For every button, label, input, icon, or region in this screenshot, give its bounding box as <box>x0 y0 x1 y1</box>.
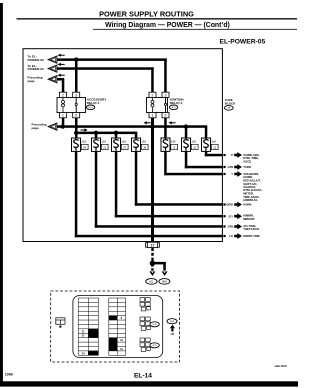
wire OR/B to right edge <box>135 203 223 206</box>
svg-text:MIRROR: MIRROR <box>243 217 254 221</box>
wire from fuse at x=136 down <box>135 151 138 205</box>
svg-text:Y: Y <box>231 172 233 176</box>
pin 2 ignition relay (top left) <box>149 92 156 97</box>
svg-text:10A: 10A <box>191 140 196 144</box>
wire from fuse at x=96 down <box>95 151 98 227</box>
wire color label LG and exit arrow <box>223 233 242 239</box>
svg-text:5: 5 <box>75 114 77 118</box>
node battery bus / fuse 10 tap <box>184 124 188 128</box>
svg-text:27: 27 <box>123 145 126 149</box>
wire from fuse at x=116 down <box>115 151 118 217</box>
fuse block face left fuse column grid <box>78 298 98 355</box>
svg-text:5: 5 <box>165 114 167 118</box>
bottom black bar <box>0 381 298 386</box>
wire accessory bus drop to fuse 27 <box>115 133 118 138</box>
wire main battery feed vertical (ignition coil to connector 17) <box>151 118 154 242</box>
wire from fuse at x=186 down <box>185 151 188 168</box>
svg-text:EL-14: EL-14 <box>134 372 152 379</box>
flow arrow on accessory bus <box>81 128 88 131</box>
node battery bus / ignition coil feed <box>150 124 154 128</box>
subtitle rule <box>93 28 297 31</box>
node accessory bus / fuse 21 tap <box>94 131 98 135</box>
wire battery bus corner drop to fuse 12 <box>205 127 208 138</box>
wire accessory bus drop to fuse 21 <box>95 133 98 138</box>
harness arrow to M1 <box>149 271 155 276</box>
destination text for G/Y <box>243 214 254 221</box>
wire dashed drop to M1 arrow <box>151 264 153 271</box>
svg-text:P: P <box>231 153 233 157</box>
svg-text:TURN: TURN <box>243 165 251 169</box>
node junction wire A / accessory relay contact feed <box>74 57 78 61</box>
svg-text:page: page <box>32 126 40 130</box>
wire accessory relay coil return drop <box>62 118 65 128</box>
wire color label P and exit arrow <box>223 152 242 158</box>
svg-text:2: 2 <box>62 93 64 97</box>
svg-text:RELAY-1: RELAY-1 <box>170 101 183 105</box>
page left edge bar <box>0 3 3 386</box>
face view ref E24 <box>150 322 159 327</box>
wire G/W to right edge <box>95 225 223 228</box>
accessory relay contact symbol <box>75 98 77 104</box>
svg-text:G/W: G/W <box>228 165 234 169</box>
svg-text:10: 10 <box>193 145 196 149</box>
svg-text:15A: 15A <box>141 140 146 144</box>
svg-text:1: 1 <box>62 114 64 118</box>
connector ref E24 (accessory relay) <box>86 105 94 110</box>
flow arrow on wire A <box>58 54 65 57</box>
face view ref M33 <box>167 319 177 324</box>
destination text for Y <box>243 172 263 202</box>
connector ref M66 <box>159 279 170 285</box>
svg-text:M66: M66 <box>162 280 167 283</box>
wire A horizontal (triangle A to ignition relay pin 3) <box>57 58 167 61</box>
accessory relay coil symbol <box>62 100 65 103</box>
svg-text:OR/B: OR/B <box>226 203 233 207</box>
svg-text:M1: M1 <box>150 279 154 283</box>
wire accessory bus to fuses <box>76 132 137 135</box>
wire color label OR/B and exit arrow <box>223 202 242 208</box>
page connector triangle B (to EL-POWER-02) <box>48 65 57 72</box>
wire G/Y to right edge <box>115 215 223 218</box>
svg-text:EL-POWER-05: EL-POWER-05 <box>220 39 266 46</box>
page connector triangle D (preceding page lower) <box>48 123 57 130</box>
flow arrow on battery bus (left) <box>144 121 151 124</box>
svg-text:1006: 1006 <box>5 373 13 377</box>
svg-text:BLOCK: BLOCK <box>225 102 236 106</box>
fuse F27 10A <box>112 138 129 151</box>
wire C drop to accessory relay coil pin <box>62 79 65 92</box>
wire from fuse at x=206 down <box>205 151 208 156</box>
ignition relay contact symbol <box>165 98 167 104</box>
wire color label G/Y and exit arrow <box>223 213 242 219</box>
relay IGNITION RELAY-1 body <box>147 98 168 113</box>
svg-text:UP: UP <box>171 332 175 336</box>
page connector triangle C (preceding page) <box>48 76 57 83</box>
wire B horizontal (triangle B to ignition relay coil) <box>57 67 154 70</box>
ignition relay socket (face view) <box>140 338 150 351</box>
wire LG to right edge <box>75 235 223 238</box>
connector 17 pass-through at fuse block edge <box>146 242 160 248</box>
svg-text:G/W: G/W <box>228 225 234 229</box>
svg-text:18: 18 <box>143 145 146 149</box>
svg-text:THEFT,FICD: THEFT,FICD <box>243 227 259 231</box>
svg-text:POWER SUPPLY ROUTING: POWER SUPPLY ROUTING <box>99 10 194 19</box>
flow arrow on battery bus (right) <box>169 121 176 124</box>
highlighted fuse cells 8 10 12 <box>109 316 117 320</box>
svg-text:J/B: J/B <box>227 108 231 110</box>
destination text for P <box>243 153 260 164</box>
page connector triangle A (to EL-POWER-03) <box>48 56 57 63</box>
destination text for LG <box>243 234 260 238</box>
svg-text:ASCD: ASCD <box>243 160 251 164</box>
destination text for G/W <box>243 224 259 231</box>
fuse F8 10A <box>161 138 178 151</box>
svg-text:21: 21 <box>103 145 106 149</box>
connector ref J/B (fuse block) <box>224 106 233 111</box>
svg-text:H/MIRR,ILL: H/MIRR,ILL <box>243 198 258 202</box>
pin 1 ignition relay (bottom left) <box>149 113 156 118</box>
svg-text:10A: 10A <box>101 140 106 144</box>
pin 3 ignition relay (top right) <box>162 92 169 97</box>
wire A drop to ignition relay contact pin <box>164 58 167 92</box>
wire drop to M66 arrow <box>163 263 166 270</box>
fuse block face outline <box>73 296 163 358</box>
wire accessory bus corner drop to fuse 18 <box>135 133 138 138</box>
svg-text:RELAY-1: RELAY-1 <box>87 101 100 105</box>
destination text for G/W <box>243 165 251 169</box>
fuse F24 20A <box>72 138 89 151</box>
title rule <box>17 18 298 19</box>
harness arrow to M66 <box>162 271 168 276</box>
svg-text:10A: 10A <box>211 140 216 144</box>
node battery bus / accessory coil <box>61 124 65 128</box>
svg-text:10A: 10A <box>121 140 126 144</box>
relay socket top (face view) <box>140 298 150 311</box>
wire P to right edge <box>205 154 223 157</box>
face view ref E25 <box>150 343 159 348</box>
ignition relay coil symbol <box>151 100 154 103</box>
svg-text:Wiring Diagram — POWER — (Cont: Wiring Diagram — POWER — (Cont’d) <box>105 22 230 29</box>
svg-text:2: 2 <box>152 93 154 97</box>
pin 3 accessory relay (top right) <box>73 92 80 97</box>
pin 5 accessory relay (bottom right) <box>73 113 80 118</box>
svg-text:WIPER,TIME: WIPER,TIME <box>243 234 260 238</box>
wire from fuse at x=166 down <box>164 151 167 175</box>
fuse F18 15A <box>132 138 149 151</box>
svg-text:page: page <box>28 79 36 83</box>
diagram border box <box>23 49 222 242</box>
node accessory bus / fuse 27 tap <box>114 131 118 135</box>
wire branch to M66 <box>152 262 165 265</box>
fuse block face right fuse column grid <box>109 298 126 355</box>
svg-text:10A: 10A <box>171 140 176 144</box>
wire C horizontal (triangle C) <box>57 78 65 81</box>
pin 2 accessory relay (top left) <box>60 92 67 97</box>
svg-text:12: 12 <box>213 145 216 149</box>
dashed detail box (fuse block face view) <box>51 291 180 362</box>
relay ACCESSORY RELAY-1 body <box>57 98 86 113</box>
flow arrow on wire C <box>58 74 65 77</box>
connector ref M1 <box>146 279 157 285</box>
connector ref E25 (ignition relay) <box>169 105 177 110</box>
svg-text:wEL1100: wEL1100 <box>274 364 288 368</box>
svg-text:HORN: HORN <box>243 203 251 207</box>
svg-text:24: 24 <box>83 145 86 149</box>
wire accessory relay contact output drop to fuse 24 <box>75 118 78 138</box>
svg-text:3: 3 <box>75 93 77 97</box>
node accessory bus start <box>74 131 78 135</box>
wire battery bus (preceding page to fuse 12) <box>57 125 208 128</box>
wire dashed below connector 17 <box>151 248 153 262</box>
fuse F12 10A <box>202 138 219 151</box>
wire Y to right edge <box>164 173 222 176</box>
accessory relay socket (face view) <box>140 317 150 330</box>
svg-text:LG: LG <box>229 234 233 238</box>
svg-text:3: 3 <box>165 93 167 97</box>
connector icon left of face view <box>56 318 65 328</box>
svg-text:POWER-03: POWER-03 <box>28 58 44 62</box>
wire ignition relay contact output drop to fuse 8 <box>164 118 167 138</box>
destination text for OR/B <box>243 203 251 207</box>
flow arrow on wire B <box>58 63 65 66</box>
wire B drop to ignition relay coil pin <box>151 67 154 92</box>
fuse F21 10A <box>92 138 109 151</box>
svg-text:17: 17 <box>151 244 155 248</box>
pin 1 accessory relay (bottom left) <box>60 113 67 118</box>
wire color label Y and exit arrow <box>223 171 242 177</box>
fuse F10 10A <box>182 138 199 151</box>
svg-text:20A: 20A <box>81 140 86 144</box>
svg-text:G/Y: G/Y <box>228 214 233 218</box>
wire color label G/W and exit arrow <box>223 224 242 230</box>
wire from fuse at x=76 down <box>75 151 78 237</box>
svg-text:1: 1 <box>152 114 154 118</box>
wire G/W to right edge <box>185 166 223 169</box>
wire color label G/W and exit arrow <box>223 164 242 170</box>
wire battery bus drop to fuse 10 <box>185 127 188 138</box>
svg-text:POWER-02: POWER-02 <box>28 67 44 71</box>
wire drop to accessory relay contact pin <box>75 60 78 93</box>
pin 5 ignition relay (bottom right) <box>162 113 169 118</box>
node ground split <box>150 261 155 266</box>
highlighted fuse cells 21 27 24 <box>88 329 98 333</box>
